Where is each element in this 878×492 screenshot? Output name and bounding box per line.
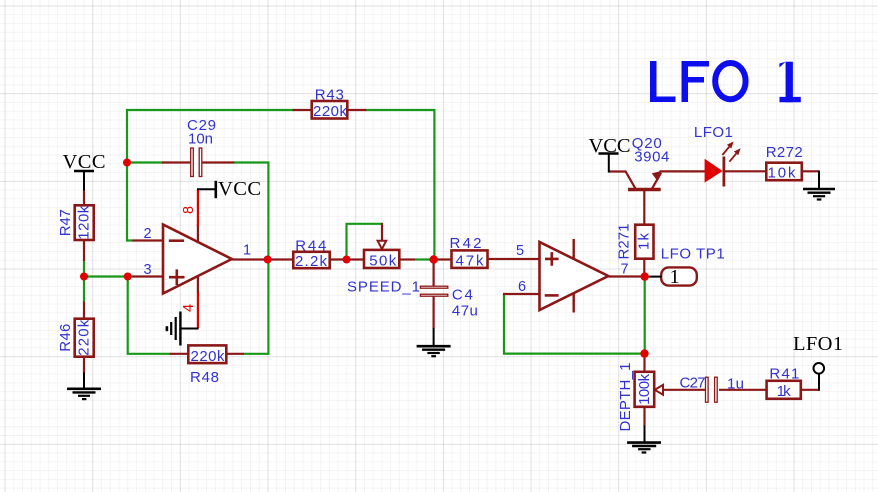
pin R47 top xyxy=(83,190,85,206)
svg-text:R48: R48 xyxy=(190,369,219,386)
wire node A to C29 left xyxy=(127,161,163,163)
power pin 8 (bright red) xyxy=(197,189,199,226)
pin R47 bottom xyxy=(83,240,85,261)
svg-text:R272: R272 xyxy=(766,144,803,161)
svg-text:R42: R42 xyxy=(450,235,482,252)
svg-text:1k: 1k xyxy=(636,233,653,251)
Q20 emitter arrowhead xyxy=(652,171,662,181)
capacitor C27 plate right xyxy=(715,377,718,402)
potentiometer DEPTH_1 body 100k xyxy=(635,372,655,407)
LED light arrow 2 xyxy=(729,148,740,162)
svg-text:VCC: VCC xyxy=(63,151,106,173)
wire pot right to node xyxy=(414,258,434,260)
potentiometer SPEED_1 body 50k xyxy=(364,250,399,268)
DEPTH_1 wiper arrowhead xyxy=(655,385,663,395)
svg-text:LFO1: LFO1 xyxy=(694,124,733,141)
pin R48 right xyxy=(226,353,244,355)
svg-text:6: 6 xyxy=(518,279,526,295)
pin SPEED pot right xyxy=(399,258,415,260)
svg-text:LFO TP1: LFO TP1 xyxy=(661,245,725,262)
pin DEPTH top xyxy=(643,358,645,372)
pin C4 bottom xyxy=(433,296,435,329)
resistor R42 body xyxy=(452,250,488,268)
opamp U1B V+ stub xyxy=(573,239,575,259)
wire Q20 collector xyxy=(609,172,636,189)
port LFO1 circle xyxy=(814,363,825,374)
wire divider node to pin 3 xyxy=(84,275,133,277)
opamp U1A minus sign xyxy=(169,239,184,242)
opamp U1B triangle xyxy=(540,242,609,310)
svg-text:47k: 47k xyxy=(456,252,485,269)
wire VCC divider node vertical xyxy=(83,261,85,303)
svg-text:DEPTH_1: DEPTH_1 xyxy=(617,363,634,432)
svg-text:1: 1 xyxy=(669,266,679,288)
pin R44 right to SPEED pot left xyxy=(330,258,365,260)
transistor Q20 base bar xyxy=(628,188,661,191)
power pin 4 (bright red) xyxy=(197,292,199,329)
wire SPEED wiper stem xyxy=(381,223,383,241)
svg-text:R46: R46 xyxy=(57,324,74,352)
svg-text:3: 3 xyxy=(143,262,151,278)
junction node R44/wiper xyxy=(343,256,351,264)
resistor R271 body xyxy=(635,225,653,259)
pin R46 bottom xyxy=(83,357,85,374)
pin R43 left xyxy=(293,109,312,111)
resistor R47 body xyxy=(75,205,94,240)
svg-text:C27: C27 xyxy=(680,375,706,392)
pin R46 top xyxy=(83,302,85,320)
VCC power symbol at Q20 xyxy=(599,154,619,173)
test point TP1 body xyxy=(661,267,697,285)
LED light arrow 1 xyxy=(722,142,733,156)
wire opamp2 output to TP1 (black) xyxy=(646,276,662,278)
pin R42 right to opamp2 pin5 xyxy=(487,258,540,260)
junction node opamp1 output xyxy=(264,256,272,264)
opamp U1B minus sign xyxy=(545,294,559,297)
pin opamp1 pin3 xyxy=(132,275,163,277)
opamp U1B V- stub xyxy=(573,294,575,313)
pin opamp1 pin2 xyxy=(132,239,163,241)
svg-text:7: 7 xyxy=(620,262,628,278)
svg-text:100k: 100k xyxy=(636,373,653,405)
svg-text:1: 1 xyxy=(243,242,251,258)
pin opamp2 output xyxy=(609,275,645,277)
junction node pot/R43/C4/R42 xyxy=(430,255,438,263)
wire Q20 emitter to LED anode xyxy=(652,171,706,188)
svg-text:5: 5 xyxy=(516,243,524,259)
wire feedback node down stub xyxy=(643,354,645,359)
pin R42 left xyxy=(434,258,452,260)
svg-text:50k: 50k xyxy=(369,252,397,269)
resistor R272 body xyxy=(766,163,802,181)
svg-text:2: 2 xyxy=(143,226,151,242)
svg-text:220k: 220k xyxy=(75,319,92,356)
svg-text:R43: R43 xyxy=(315,86,344,103)
pin C27 right to R41 left xyxy=(719,389,767,391)
wire C29 right to middle riser down to R48 right xyxy=(234,163,269,354)
opamp U1A plus sign xyxy=(169,269,185,285)
LED LFO1 triangle xyxy=(705,159,723,183)
pin C4 top xyxy=(433,259,435,287)
pin Q20 base to R271 top xyxy=(643,191,645,226)
ground symbol under R272 xyxy=(803,171,835,200)
svg-text:10n: 10n xyxy=(188,131,213,148)
SPEED_1 wiper arrowhead xyxy=(378,241,387,249)
svg-text:R41: R41 xyxy=(769,365,799,382)
pin opamp1 output and R44 left pin xyxy=(232,258,294,260)
wire top feedback R43 left segment xyxy=(127,109,294,111)
svg-text:VCC: VCC xyxy=(589,135,631,157)
LED cathode bar xyxy=(723,157,726,187)
pin R272 right xyxy=(800,170,819,172)
svg-text:1u: 1u xyxy=(727,376,744,393)
pin DEPTH bottom xyxy=(643,407,645,426)
wire LED cathode to R272 xyxy=(724,170,767,172)
junction node opamp2 output xyxy=(641,272,649,280)
wire top feedback R43 right segment to right riser xyxy=(365,110,434,260)
pin R48 left xyxy=(170,353,189,355)
port LFO1 stem xyxy=(818,374,820,391)
wire opamp2 output down to feedback node xyxy=(644,277,646,354)
junction node A C29/riser xyxy=(123,159,131,167)
capacitor C29 plate left xyxy=(191,148,194,177)
svg-text:10k: 10k xyxy=(768,165,797,182)
resistor R46 body xyxy=(75,319,94,357)
capacitor C4 plate top xyxy=(420,286,447,288)
opamp U1A triangle xyxy=(163,225,232,294)
resistor R41 body xyxy=(767,381,801,399)
svg-text:8: 8 xyxy=(181,206,197,214)
svg-text:2.2k: 2.2k xyxy=(295,253,328,270)
junction node feedback/DEPTH xyxy=(640,349,648,357)
pin opamp2 pin6 xyxy=(503,293,540,295)
resistor R48 body xyxy=(188,345,226,363)
wire speed wiper loop xyxy=(347,224,383,260)
svg-text:220k: 220k xyxy=(191,348,226,365)
resistor R44 body xyxy=(293,252,329,268)
VCC power symbol at opamp1 pin 8 xyxy=(197,181,216,198)
title LFO 1 xyxy=(650,61,801,102)
svg-text:R271: R271 xyxy=(615,224,632,260)
svg-text:1k: 1k xyxy=(777,383,792,400)
pin opamp1 pin8 inner dark segment xyxy=(197,224,199,244)
ground symbol under C4 xyxy=(417,328,451,356)
wire pin3 node down to R48 left xyxy=(128,277,171,354)
opamp U1B plus sign xyxy=(545,252,559,266)
capacitor C27 plate left xyxy=(706,377,709,402)
ground symbol under DEPTH_1 xyxy=(627,426,661,453)
svg-text:VCC: VCC xyxy=(218,178,261,200)
resistor R43 body xyxy=(312,101,348,119)
svg-text:LFO1: LFO1 xyxy=(793,333,843,355)
svg-text:SPEED_1: SPEED_1 xyxy=(347,279,420,296)
svg-text:C4: C4 xyxy=(452,287,473,304)
wire DEPTH wiper to C27 left xyxy=(663,389,706,391)
svg-text:220k: 220k xyxy=(313,103,348,120)
ground symbol under R46 xyxy=(67,373,101,400)
capacitor C4 plate bottom xyxy=(420,294,447,296)
wire feedback loop pin 6 xyxy=(504,294,645,354)
earth ground at opamp1 pin4 xyxy=(167,312,199,346)
junction node pin3/R48 xyxy=(124,273,132,281)
svg-text:4: 4 xyxy=(181,304,197,312)
pin R41 right to port xyxy=(800,389,819,391)
pin C29 left xyxy=(162,161,190,163)
capacitor C29 plate right xyxy=(199,148,202,177)
pin R43 right xyxy=(347,109,366,111)
svg-text:R47: R47 xyxy=(57,209,74,236)
svg-text:47u: 47u xyxy=(452,303,478,320)
pin opamp1 pin4 inner dark segment xyxy=(197,277,199,294)
pin C29 right xyxy=(202,161,234,163)
junction node divider/pin3 xyxy=(80,273,88,281)
svg-text:3904: 3904 xyxy=(634,148,669,165)
svg-text:120k: 120k xyxy=(75,205,92,240)
VCC power symbol left xyxy=(74,171,94,191)
wire left riser from top wire to pin 2 xyxy=(127,109,133,241)
pin R271 bottom xyxy=(643,258,645,276)
